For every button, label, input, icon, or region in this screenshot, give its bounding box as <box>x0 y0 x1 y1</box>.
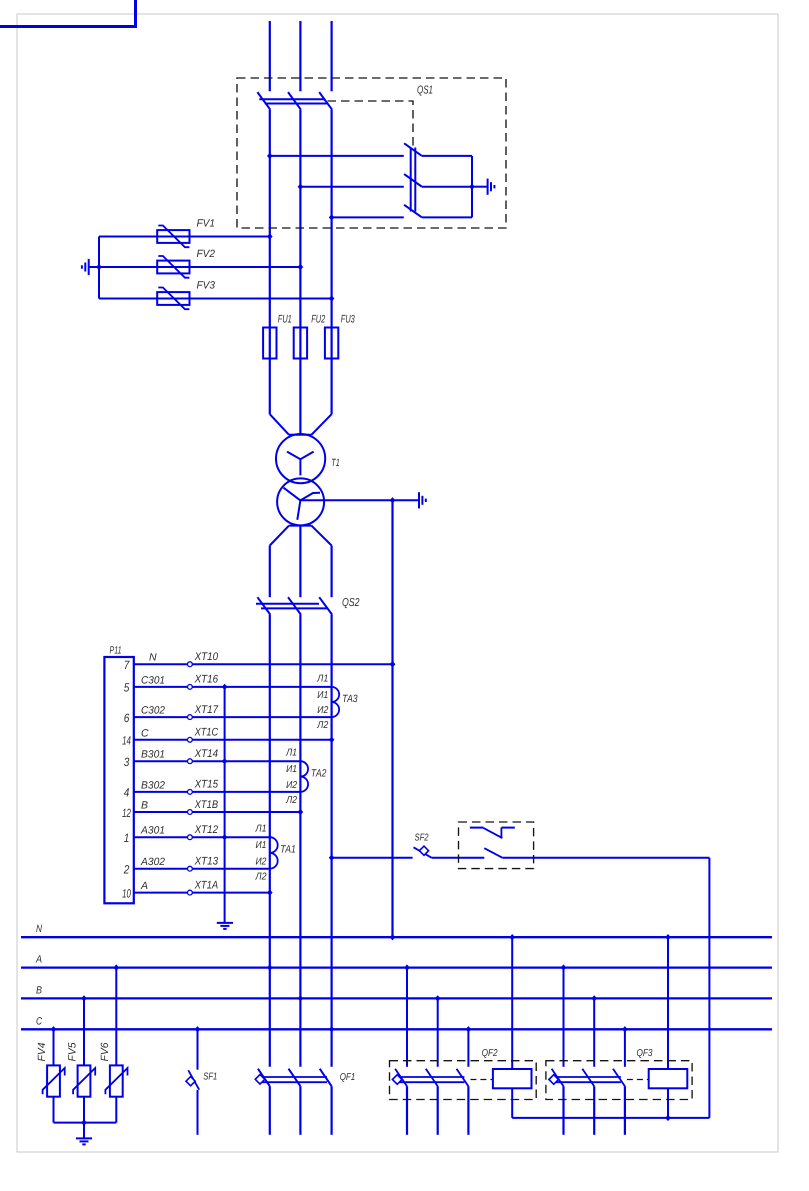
svg-text:N: N <box>36 923 42 935</box>
svg-text:И2: И2 <box>317 705 328 716</box>
svg-text:В302: В302 <box>141 779 165 791</box>
svg-text:5: 5 <box>124 681 130 695</box>
svg-text:В: В <box>141 800 148 812</box>
svg-text:ТА3: ТА3 <box>342 693 358 705</box>
svg-text:10: 10 <box>122 886 131 900</box>
svg-text:SF1: SF1 <box>203 1071 217 1082</box>
svg-text:Л1: Л1 <box>316 673 328 684</box>
svg-text:Л2: Л2 <box>255 872 267 883</box>
svg-text:FU2: FU2 <box>311 313 325 325</box>
svg-text:А: А <box>140 880 148 892</box>
svg-text:И1: И1 <box>317 690 328 701</box>
svg-text:QF1: QF1 <box>340 1072 356 1083</box>
svg-text:QF2: QF2 <box>482 1048 498 1059</box>
svg-text:QF3: QF3 <box>637 1048 653 1059</box>
svg-text:XT16: XT16 <box>194 674 219 686</box>
svg-text:1: 1 <box>124 831 130 845</box>
svg-text:T1: T1 <box>331 457 340 469</box>
svg-text:6: 6 <box>124 711 130 725</box>
svg-text:A: A <box>35 954 42 966</box>
svg-text:FV6: FV6 <box>99 1042 111 1061</box>
svg-text:ТА1: ТА1 <box>280 844 296 856</box>
svg-text:C: C <box>36 1015 42 1027</box>
svg-text:4: 4 <box>124 786 130 800</box>
svg-text:XT1C: XT1C <box>194 727 218 739</box>
svg-text:XT12: XT12 <box>194 824 218 836</box>
svg-text:XT14: XT14 <box>194 748 218 760</box>
svg-text:XT1B: XT1B <box>194 799 218 811</box>
svg-text:Р11: Р11 <box>110 645 122 657</box>
svg-text:FU1: FU1 <box>278 313 292 325</box>
svg-text:3: 3 <box>124 755 130 769</box>
svg-text:N: N <box>149 652 157 664</box>
svg-text:Л1: Л1 <box>255 824 267 835</box>
svg-text:XT17: XT17 <box>194 704 219 716</box>
svg-text:XT10: XT10 <box>194 651 219 663</box>
svg-text:FV3: FV3 <box>197 279 216 291</box>
svg-text:FV2: FV2 <box>197 248 216 260</box>
svg-text:Л1: Л1 <box>285 748 297 759</box>
svg-text:QS2: QS2 <box>342 597 360 609</box>
svg-text:2: 2 <box>123 863 130 877</box>
svg-text:А301: А301 <box>140 825 165 837</box>
svg-text:А302: А302 <box>140 856 165 868</box>
svg-text:И1: И1 <box>286 764 297 775</box>
svg-text:И1: И1 <box>256 840 267 851</box>
svg-text:И2: И2 <box>256 857 267 868</box>
svg-text:FV5: FV5 <box>67 1042 79 1061</box>
svg-text:SF2: SF2 <box>415 832 429 843</box>
svg-text:FV4: FV4 <box>36 1042 48 1061</box>
svg-text:С302: С302 <box>141 705 165 717</box>
svg-text:С301: С301 <box>141 674 165 686</box>
svg-text:FU3: FU3 <box>341 313 356 325</box>
svg-text:12: 12 <box>122 806 131 820</box>
svg-text:FV1: FV1 <box>197 217 216 229</box>
svg-text:В301: В301 <box>141 749 165 761</box>
svg-text:XT1A: XT1A <box>194 879 218 891</box>
svg-text:XT13: XT13 <box>194 856 219 868</box>
svg-text:И2: И2 <box>286 780 297 791</box>
svg-text:Л2: Л2 <box>285 795 297 806</box>
svg-text:XT15: XT15 <box>194 779 219 791</box>
svg-text:14: 14 <box>122 734 131 748</box>
svg-text:7: 7 <box>124 658 131 672</box>
svg-text:С: С <box>141 727 149 739</box>
svg-text:Л2: Л2 <box>316 720 328 731</box>
svg-text:ТА2: ТА2 <box>311 768 327 780</box>
svg-text:B: B <box>36 984 42 996</box>
svg-text:QS1: QS1 <box>417 85 433 97</box>
